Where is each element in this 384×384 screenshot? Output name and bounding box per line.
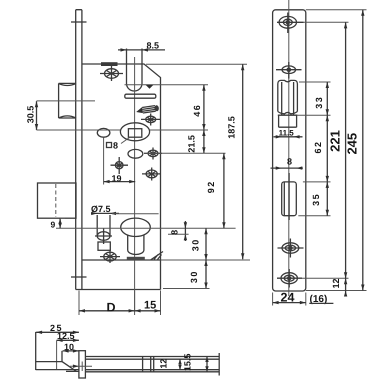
euro cylinder head [121,218,151,236]
svg-text:12: 12 [331,278,341,288]
dim 30 upper [191,228,208,260]
dim 245 [345,10,365,291]
ellipse C (hole below follower) [128,149,143,158]
svg-text:12.5: 12.5 [57,331,75,341]
svg-text:21.5: 21.5 [187,135,197,153]
latch bolt side view [36,351,79,370]
svg-text:8: 8 [287,157,292,167]
deadbolt bottom extension [112,213,159,215]
svg-text:19: 19 [112,173,122,183]
dim phi7.5 label [91,204,119,215]
dim 25 [36,323,79,334]
plate outline [273,10,306,291]
square spindle hole [128,129,141,138]
svg-text:30: 30 [189,270,199,283]
svg-text:15.5: 15.5 [182,354,192,372]
bar division lines [143,357,154,372]
svg-text:46: 46 [192,104,202,117]
dim 8.5 [118,41,165,52]
screw F [142,168,161,181]
dim 24 [273,291,306,306]
screw 3 [278,239,304,258]
plate centerline [288,0,290,296]
small ellipse (hole left of follower) [97,128,110,137]
wedge with hatching [151,252,163,260]
svg-text:8: 8 [169,230,179,235]
faceplate tick top [71,21,87,23]
dim 9 [51,218,66,229]
svg-text:24: 24 [281,291,295,305]
screw 4 [277,269,302,288]
screw E (crosshair) [111,157,129,174]
left extension line [35,332,37,370]
screw H [100,250,120,263]
dim 12.5 [57,331,79,369]
dim chain 33 / 62 / 35 [311,82,329,216]
small square G [98,242,110,250]
svg-text:187.5: 187.5 [227,116,237,139]
svg-text:D: D [107,301,116,315]
follower slot (tall slot with round bottom) [127,49,143,92]
svg-text:8.5: 8.5 [147,41,160,51]
flange pin with arrow [70,362,92,372]
latch bevel [62,362,79,372]
latch centerline extension [125,84,209,86]
follower hub (big ellipse) [120,123,149,141]
screw B [141,114,160,126]
dim 30.5 [26,101,96,130]
diagonal screw part [136,105,160,114]
dim 19 extension [103,138,105,185]
dim 12 (bar inner) [158,359,181,370]
svg-text:62: 62 [313,140,323,153]
dim D / 15 [79,291,161,316]
deadbolt opening [282,173,297,220]
dim 92 [206,153,225,228]
deadbolt hidden centerline [55,184,57,217]
svg-text:10: 10 [64,342,74,352]
section arrow on latch line [146,85,154,89]
thin bar part [125,94,156,98]
dim 8 (plate) [271,157,303,170]
svg-text:221: 221 [328,130,343,152]
cylinder centerline [56,227,236,229]
latch bolt (front, protruding left) [59,83,76,118]
label (16) [309,294,333,305]
lock case outline [76,64,161,290]
case internal line [82,259,161,261]
faceplate side (flange) [79,351,86,378]
dim 8 (cylinder) [168,221,189,241]
dim 30 lower [189,260,208,289]
svg-text:245: 245 [345,133,360,155]
svg-text:35: 35 [311,193,321,206]
svg-text:8: 8 [113,141,118,151]
case bottom right extension [163,288,210,290]
top screw slot (dark bar on top edge) [101,62,118,66]
screw 1 [277,13,304,34]
dim 46 [192,85,206,130]
follower centerline [37,129,121,131]
faceplate (front view, left vertical strip) [76,10,82,290]
label square-8 with leader [107,138,130,151]
dim 187.5 [227,64,245,259]
right end extension [218,353,220,376]
dim 21.5 [187,130,206,153]
extension lines right [297,10,366,291]
svg-text:92: 92 [206,180,216,193]
svg-text:12: 12 [158,359,168,369]
screw 2 [276,62,302,79]
svg-text:15: 15 [144,300,156,312]
case bar (side view) [85,357,219,372]
screw D [144,148,162,160]
extension at hole C center [144,152,226,154]
dim 15.5 (bar outer) [182,354,208,372]
screw A (cross screw below top edge) [100,66,123,81]
hatched wall under cylinder [127,257,145,260]
slot/case centerline (vertical) [134,57,136,311]
euro cylinder stem [128,235,144,255]
faceplate tick bottom [71,276,87,278]
case top extension [146,63,247,65]
dim 221 and 12 [328,22,348,296]
svg-text:33: 33 [314,96,324,109]
hole phi7.5 (slot with bottom ellipse) [95,215,112,244]
dim 11.5 [274,129,303,139]
dim 10 [63,342,79,353]
svg-text:30.5: 30.5 [26,106,36,124]
svg-text:30: 30 [191,238,201,251]
latch opening [278,80,298,127]
dim 19 [104,173,136,183]
case internal line right extension [161,259,251,261]
follower centerline right extension [150,129,208,131]
svg-text:9: 9 [51,219,56,229]
deadbolt (front, protruding left) [38,183,77,218]
